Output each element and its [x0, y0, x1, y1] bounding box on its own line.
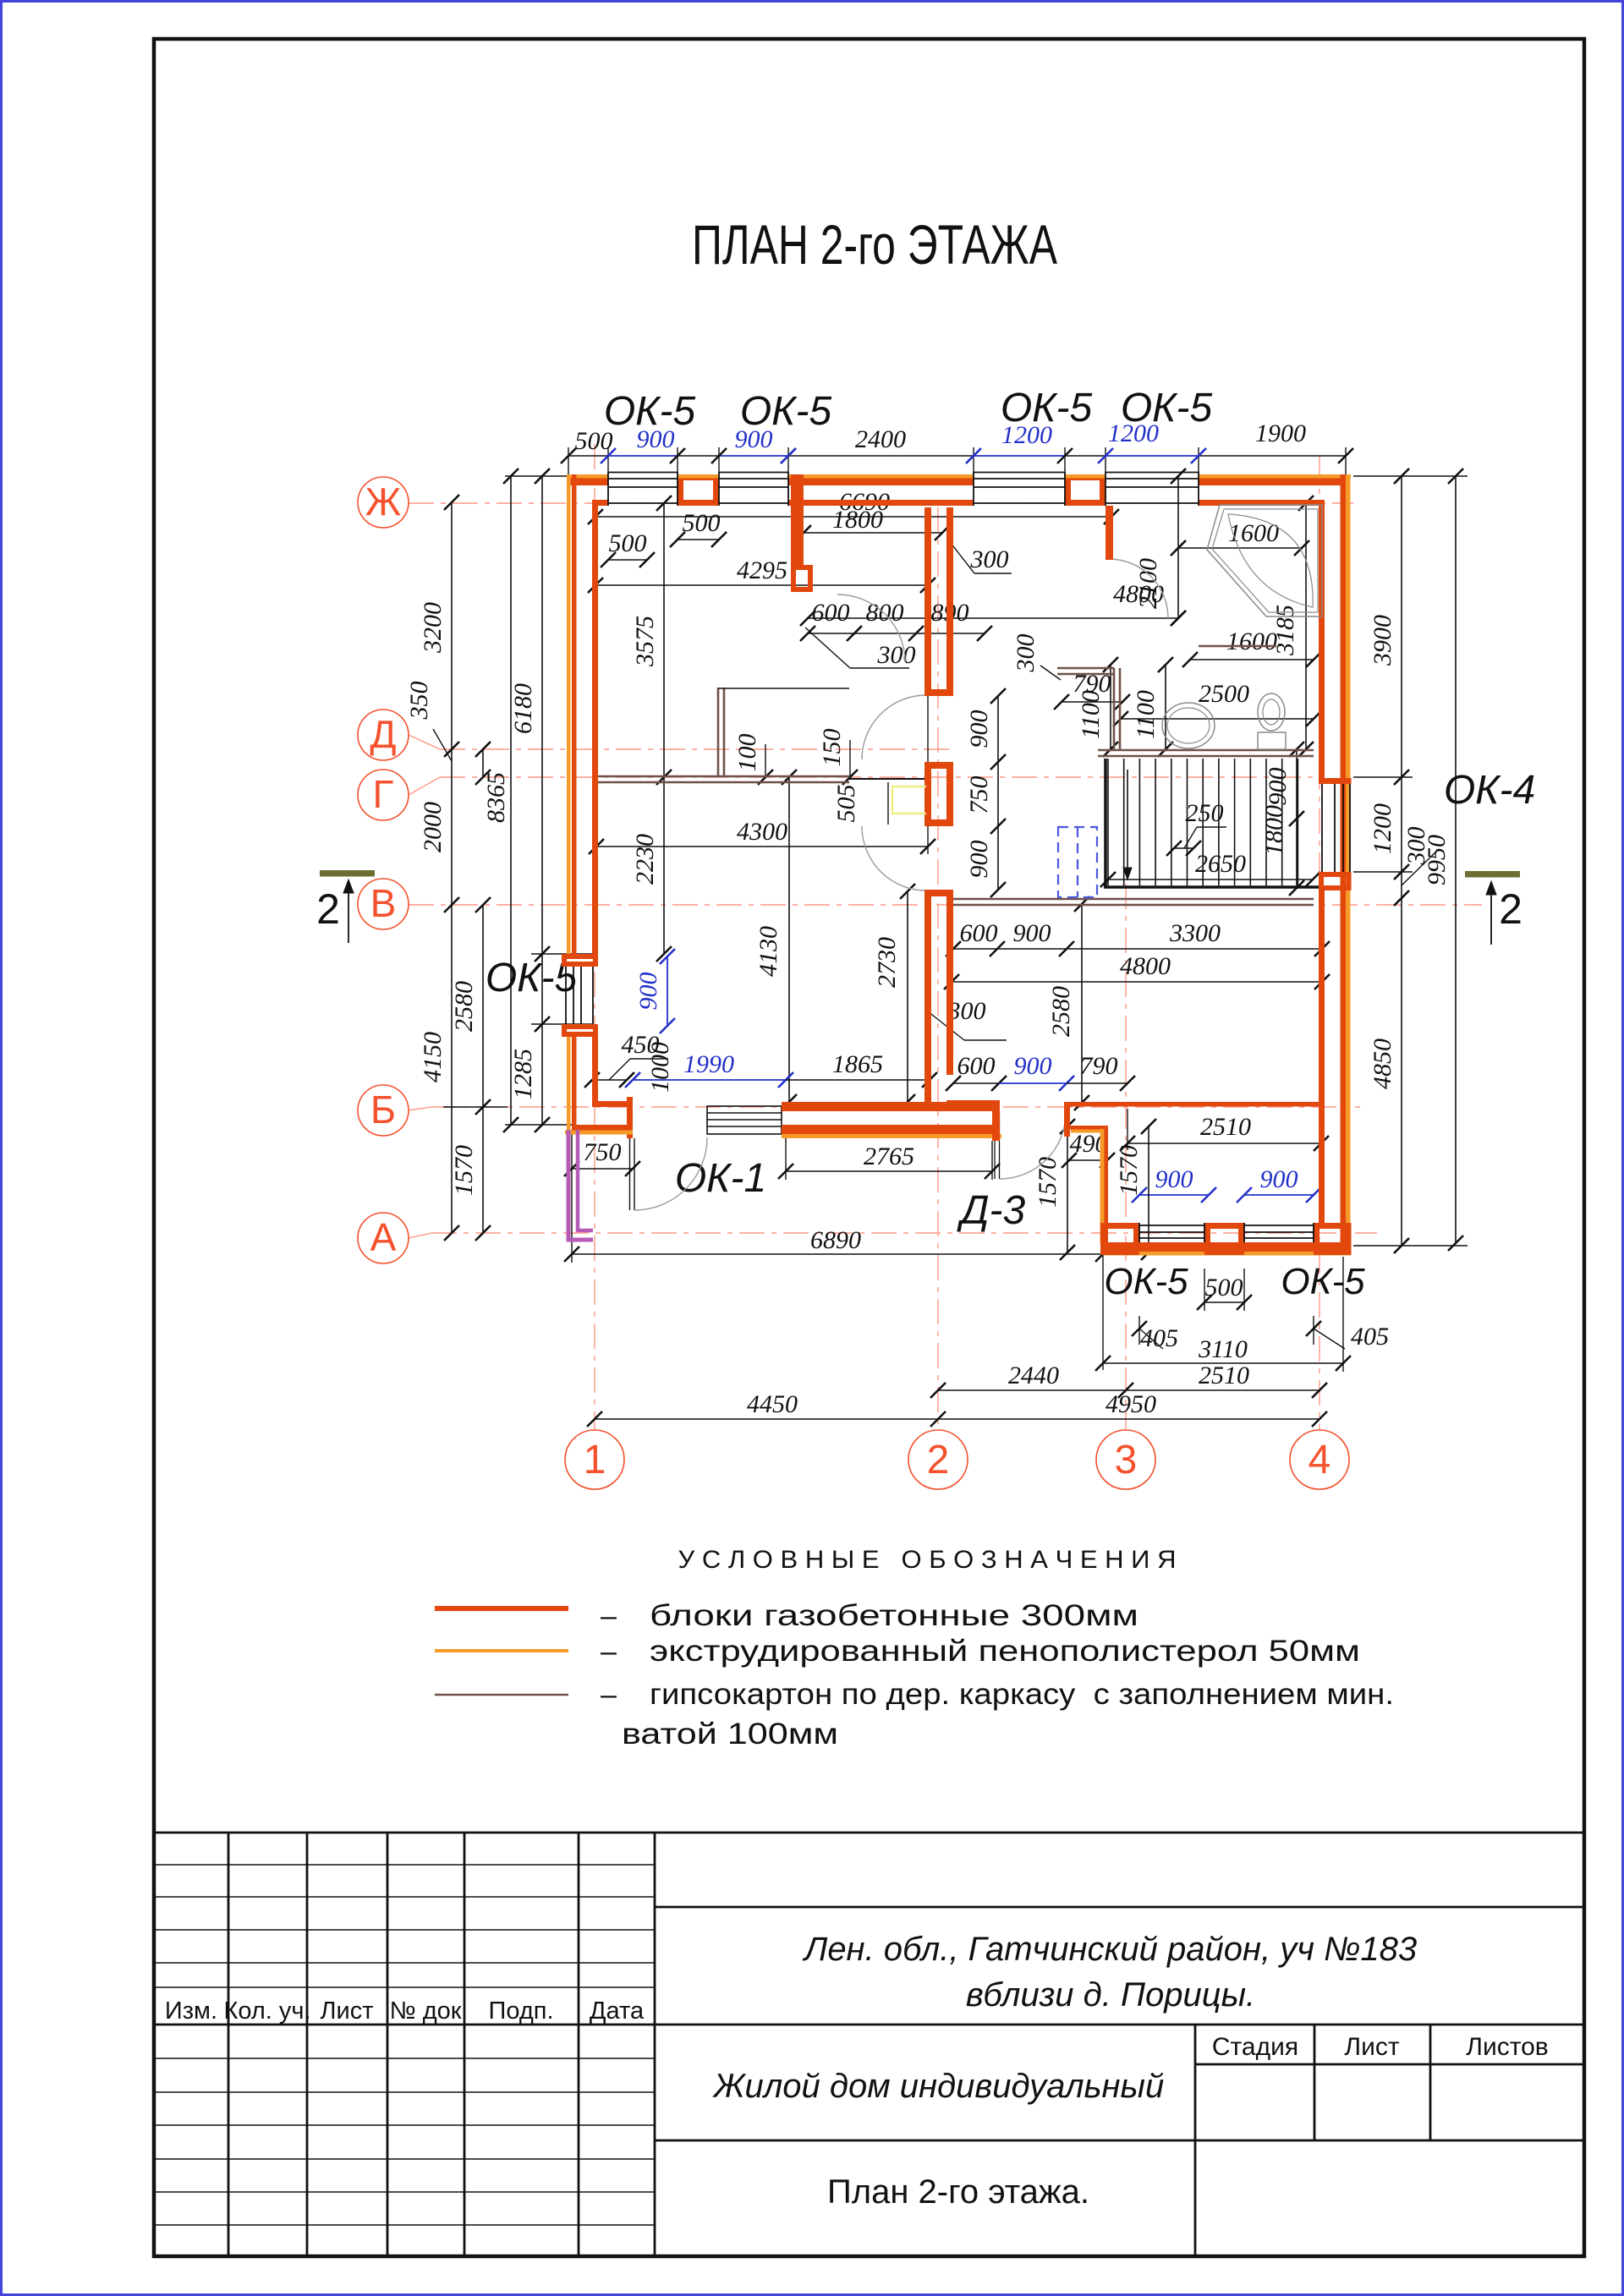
svg-text:Д: Д	[370, 712, 396, 756]
svg-text:вблизи д. Порицы.: вблизи д. Порицы.	[966, 1976, 1255, 2014]
svg-text:2730: 2730	[873, 937, 901, 988]
svg-text:ОК-5: ОК-5	[1001, 386, 1093, 430]
svg-text:ПЛАН 2-го ЭТАЖА: ПЛАН 2-го ЭТАЖА	[692, 213, 1057, 276]
svg-text:2510: 2510	[1200, 1113, 1251, 1141]
svg-text:Лист: Лист	[320, 1997, 373, 2025]
svg-text:900: 900	[1014, 1052, 1052, 1080]
svg-text:1000: 1000	[646, 1042, 674, 1093]
svg-text:8365: 8365	[482, 772, 510, 823]
svg-text:250: 250	[1186, 799, 1224, 827]
svg-text:6890: 6890	[810, 1226, 861, 1254]
svg-text:900: 900	[1260, 1165, 1298, 1193]
svg-text:300: 300	[877, 641, 916, 669]
svg-text:405: 405	[1140, 1324, 1178, 1352]
svg-text:2: 2	[1499, 885, 1522, 933]
svg-text:2580: 2580	[450, 981, 478, 1032]
svg-text:гипсокартон по дер. каркасу с: гипсокартон по дер. каркасу с заполнение…	[650, 1678, 1394, 1711]
svg-text:900: 900	[634, 973, 662, 1011]
svg-text:Изм.: Изм.	[165, 1997, 217, 2025]
svg-text:2: 2	[316, 885, 340, 933]
svg-text:900: 900	[1264, 768, 1292, 806]
svg-text:1200: 1200	[1369, 803, 1396, 854]
svg-text:Лист: Лист	[1344, 2033, 1399, 2061]
svg-text:500: 500	[609, 529, 647, 557]
svg-text:500: 500	[1205, 1274, 1243, 1301]
svg-text:Д-3: Д-3	[957, 1188, 1026, 1233]
svg-text:600: 600	[957, 1052, 996, 1080]
svg-text:1990: 1990	[683, 1050, 734, 1078]
svg-text:600: 600	[812, 599, 850, 627]
svg-text:Подп.: Подп.	[488, 1997, 553, 2025]
svg-text:3: 3	[1115, 1438, 1138, 1482]
svg-text:750: 750	[584, 1138, 622, 1166]
svg-text:ОК-5: ОК-5	[1104, 1261, 1188, 1302]
svg-text:Б: Б	[370, 1088, 396, 1132]
svg-text:4950: 4950	[1106, 1390, 1156, 1418]
svg-text:–: –	[601, 1600, 617, 1632]
svg-text:1100: 1100	[1132, 690, 1160, 739]
svg-text:ОК-5: ОК-5	[1281, 1261, 1365, 1302]
svg-text:3200: 3200	[419, 602, 447, 654]
svg-text:1: 1	[584, 1438, 606, 1482]
svg-text:2100: 2100	[1134, 558, 1162, 609]
svg-text:Кол. уч.: Кол. уч.	[223, 1997, 310, 2025]
svg-text:В: В	[370, 881, 397, 925]
svg-text:100: 100	[733, 734, 761, 772]
svg-text:Листов: Листов	[1466, 2033, 1548, 2061]
svg-text:6180: 6180	[509, 683, 537, 734]
svg-text:ОК-4: ОК-4	[1444, 768, 1535, 813]
svg-text:ОК-5: ОК-5	[604, 389, 696, 434]
svg-text:2580: 2580	[1047, 986, 1075, 1037]
svg-text:2440: 2440	[1008, 1362, 1059, 1389]
svg-text:2400: 2400	[855, 425, 906, 453]
svg-text:№ док: № док	[390, 1997, 462, 2025]
svg-text:505: 505	[832, 785, 860, 823]
svg-text:4450: 4450	[747, 1390, 798, 1418]
svg-text:экструдированный пенополистеро: экструдированный пенополистерол 50мм	[650, 1635, 1360, 1668]
svg-text:1570: 1570	[450, 1145, 478, 1196]
svg-text:План 2-го этажа.: План 2-го этажа.	[827, 2173, 1089, 2211]
svg-text:ОК-5: ОК-5	[740, 389, 832, 434]
svg-text:3900: 3900	[1369, 615, 1396, 666]
svg-text:ОК-1: ОК-1	[675, 1156, 766, 1201]
svg-text:Стадия: Стадия	[1212, 2033, 1298, 2061]
svg-text:500: 500	[683, 509, 721, 537]
svg-text:3300: 3300	[1169, 919, 1221, 947]
svg-text:1100: 1100	[1077, 690, 1105, 739]
svg-text:–: –	[601, 1636, 617, 1668]
svg-text:Ж: Ж	[365, 479, 401, 523]
svg-text:405: 405	[1351, 1323, 1389, 1351]
svg-text:9950: 9950	[1423, 835, 1451, 885]
svg-text:300: 300	[1012, 634, 1040, 673]
svg-text:1600: 1600	[1226, 627, 1277, 655]
svg-text:2500: 2500	[1199, 680, 1249, 708]
svg-text:750: 750	[965, 776, 993, 814]
svg-text:4: 4	[1309, 1438, 1331, 1482]
svg-text:4150: 4150	[419, 1032, 447, 1082]
svg-text:4295: 4295	[737, 556, 787, 584]
svg-text:ОК-5: ОК-5	[1121, 386, 1213, 430]
svg-text:790: 790	[1080, 1052, 1118, 1080]
svg-text:1570: 1570	[1115, 1145, 1143, 1196]
svg-text:1800: 1800	[1260, 805, 1288, 856]
svg-text:900: 900	[1013, 919, 1051, 947]
svg-text:2765: 2765	[864, 1143, 914, 1170]
svg-text:600: 600	[960, 919, 998, 947]
svg-text:2510: 2510	[1199, 1362, 1249, 1389]
svg-text:300: 300	[970, 545, 1009, 573]
svg-text:4800: 4800	[1120, 952, 1171, 980]
svg-text:ватой 100мм: ватой 100мм	[622, 1718, 838, 1751]
svg-text:800: 800	[866, 599, 904, 627]
svg-text:Лен. обл., Гатчинский район, у: Лен. обл., Гатчинский район, уч №183	[802, 1931, 1417, 1968]
svg-text:2: 2	[927, 1438, 950, 1482]
svg-text:–: –	[601, 1679, 617, 1711]
svg-text:900: 900	[965, 710, 993, 748]
svg-text:4130: 4130	[754, 926, 782, 977]
svg-text:350: 350	[405, 682, 433, 721]
svg-text:А: А	[370, 1215, 397, 1259]
svg-text:900: 900	[1155, 1165, 1193, 1193]
svg-text:У С Л О В Н Ы Е О Б О З Н А: У С Л О В Н Ы Е О Б О З Н А Ч Е Н И Я	[678, 1546, 1177, 1574]
svg-text:1800: 1800	[832, 506, 883, 534]
svg-text:1865: 1865	[832, 1050, 883, 1078]
svg-text:Жилой дом индивидуальный: Жилой дом индивидуальный	[712, 2068, 1164, 2105]
svg-text:Дата: Дата	[590, 1997, 645, 2025]
svg-text:3575: 3575	[631, 616, 659, 667]
svg-text:1285: 1285	[509, 1049, 537, 1099]
svg-text:1900: 1900	[1255, 419, 1306, 447]
svg-text:1570: 1570	[1034, 1157, 1062, 1208]
svg-text:3110: 3110	[1198, 1335, 1248, 1363]
svg-text:4850: 4850	[1369, 1038, 1396, 1089]
svg-text:2230: 2230	[631, 834, 659, 885]
svg-text:900: 900	[965, 841, 993, 879]
svg-text:блоки газобетонные 300мм: блоки газобетонные 300мм	[650, 1599, 1138, 1632]
svg-text:150: 150	[818, 729, 846, 767]
svg-text:Г: Г	[373, 772, 394, 816]
svg-text:4300: 4300	[737, 818, 787, 846]
svg-text:2000: 2000	[419, 802, 447, 852]
